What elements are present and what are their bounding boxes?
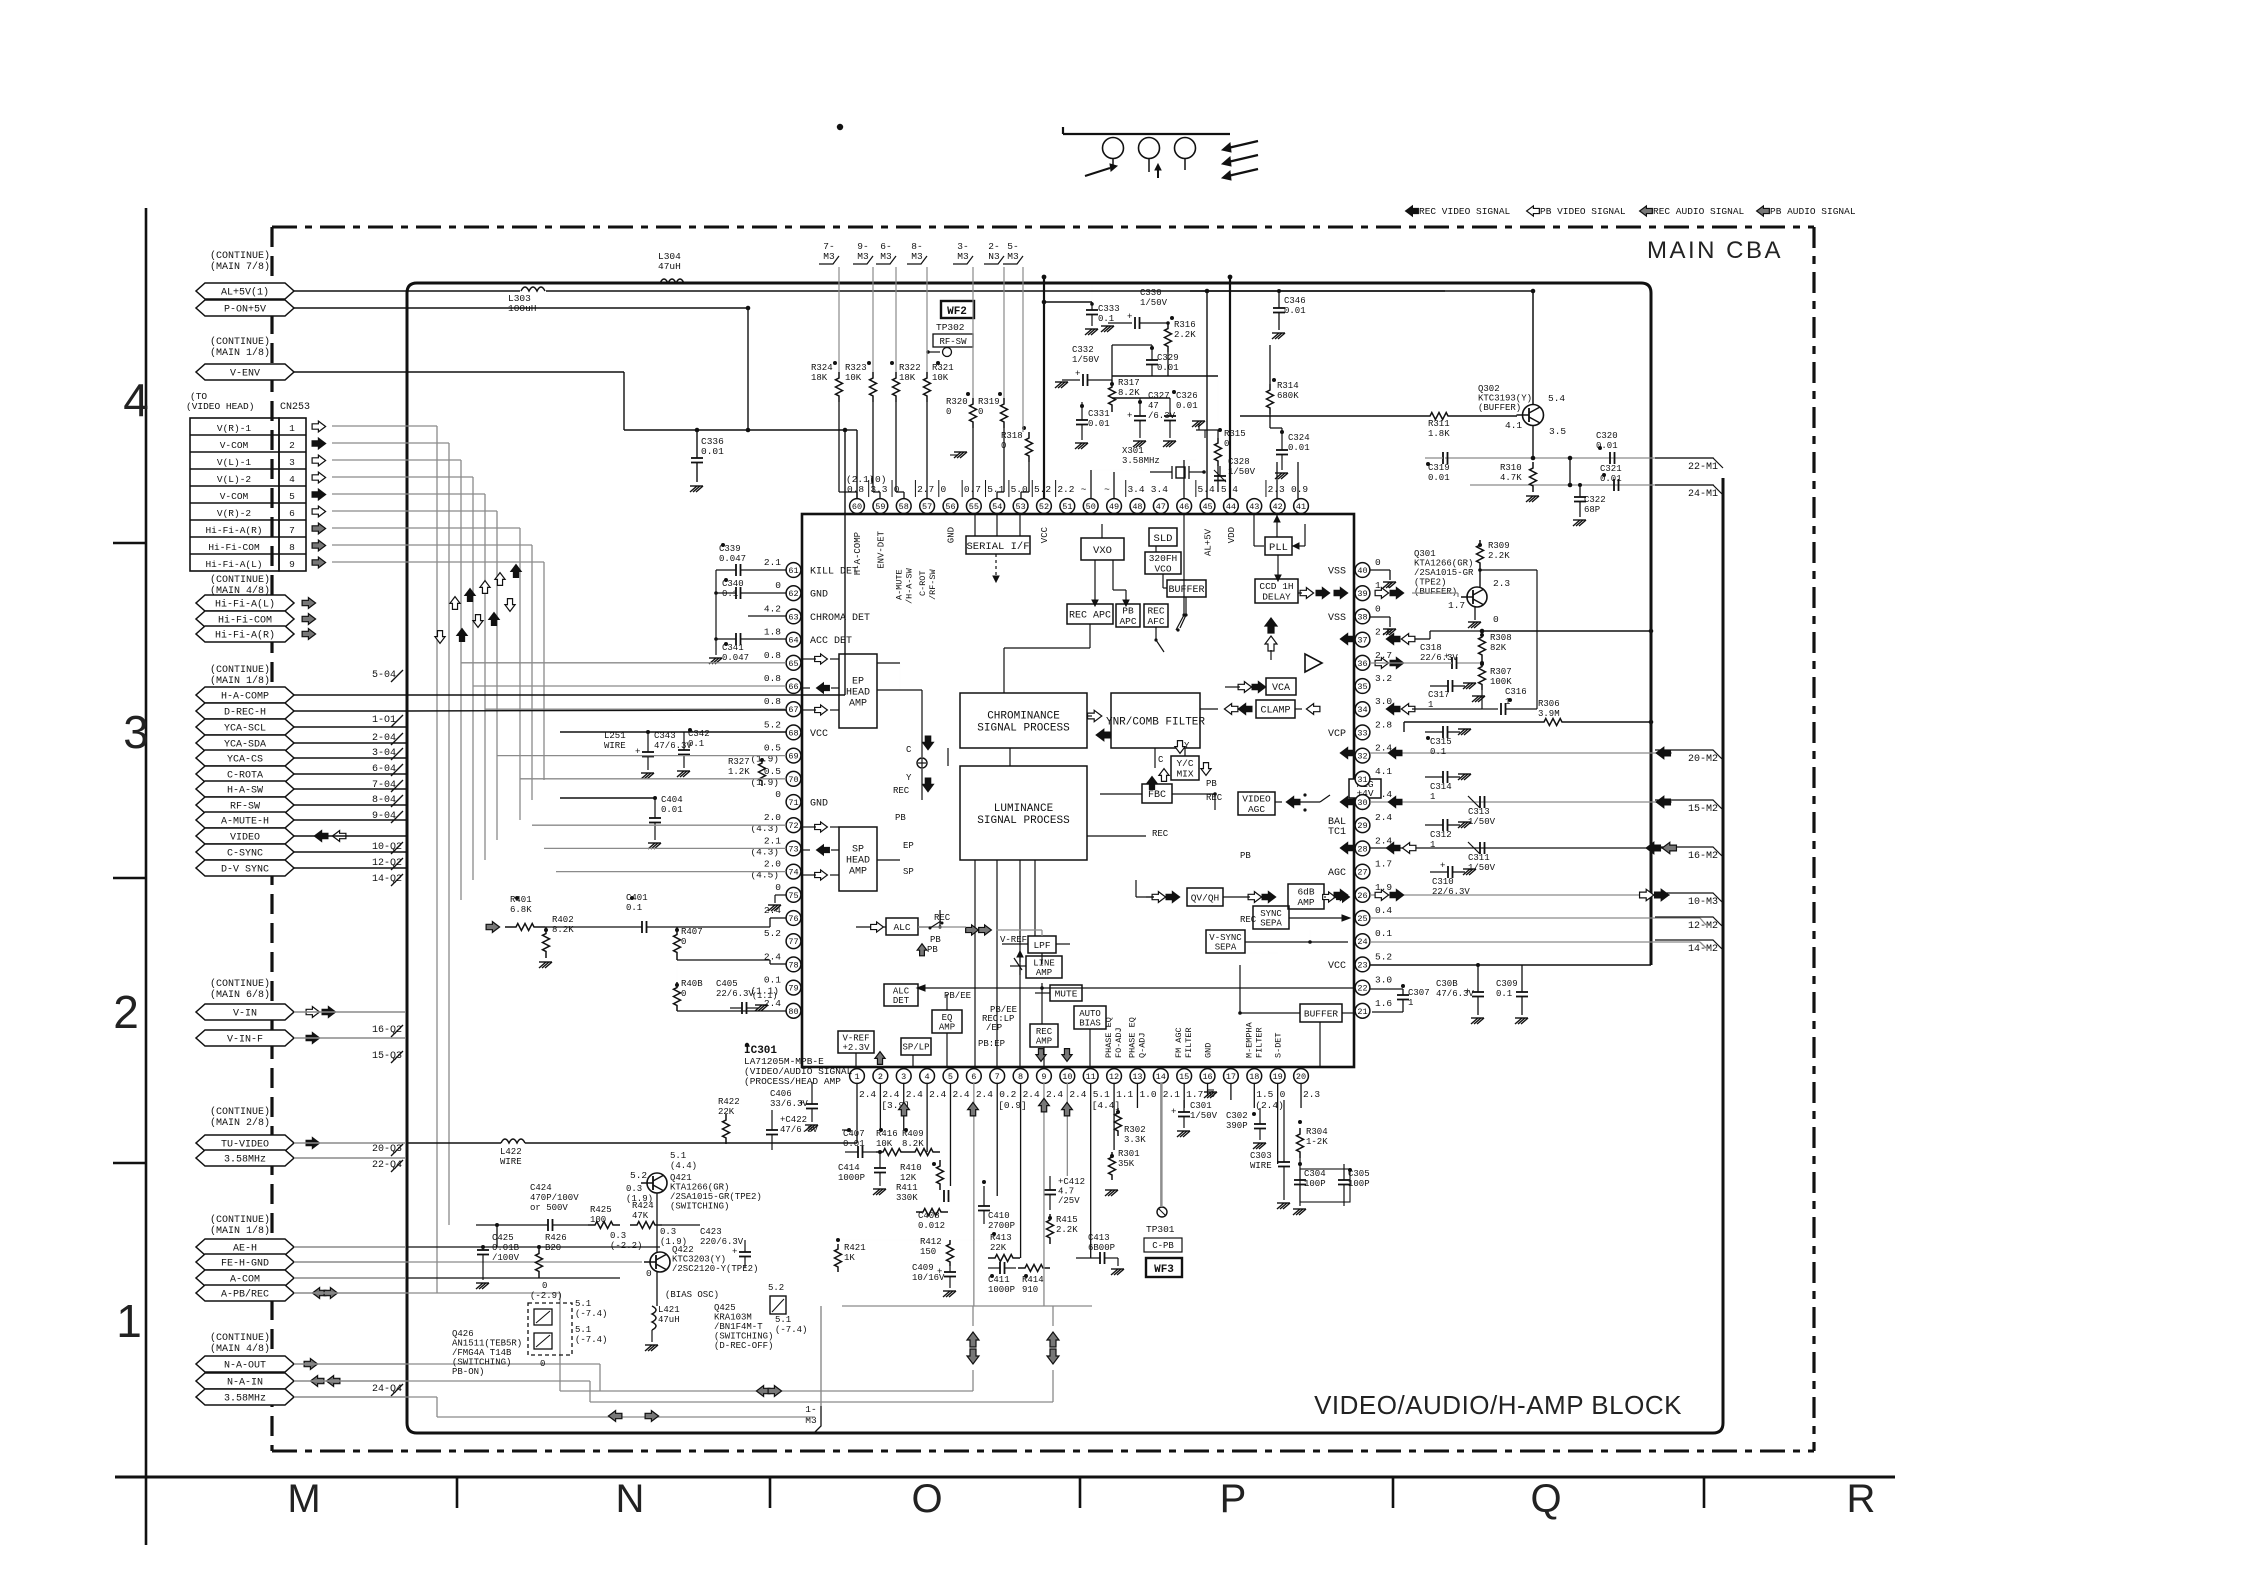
capacitor C313 (1468, 796, 1496, 827)
left ruler tick y543 (113, 542, 146, 545)
inductor L303 (508, 293, 537, 314)
pin 15 (IC301 bottom) (1177, 1069, 1204, 1100)
svg-text:78: 78 (788, 960, 798, 970)
svg-text:V-IN: V-IN (233, 1009, 257, 1020)
svg-text:19: 19 (1273, 1072, 1283, 1082)
net tag 7-M3 (top) (819, 241, 839, 264)
wire head bundle v6 (332, 511, 497, 840)
svg-text:2.2K: 2.2K (1056, 1225, 1078, 1235)
resistor R315 (1192, 421, 1246, 466)
svg-text:D-V SYNC: D-V SYNC (221, 865, 269, 876)
pin 40 (IC301 right) (1355, 557, 1381, 577)
wire to pin 67 (485, 708, 786, 710)
svg-text:1: 1 (1430, 840, 1435, 850)
svg-text:2.2K: 2.2K (1174, 330, 1196, 340)
svg-text:12-M2: 12-M2 (1688, 921, 1718, 932)
pin 27 (IC301 right) (1355, 859, 1392, 879)
svg-text:C307: C307 (1408, 988, 1430, 998)
svg-text:C320: C320 (1596, 431, 1618, 441)
wire pin43 stub (1184, 460, 1196, 499)
svg-text:12K: 12K (900, 1173, 917, 1183)
svg-text:0: 0 (978, 407, 983, 417)
pin name BAL TC1 (pin 29) (1328, 817, 1346, 838)
wire pin34 to C316 (1412, 708, 1482, 710)
wire into CHROMINANCE (1096, 729, 1111, 740)
wire hex row y758 (294, 757, 406, 759)
arrow Hi-Fi-A(L) (302, 598, 316, 609)
svg-text:0.01: 0.01 (1428, 473, 1450, 483)
svg-text:ENV-DET: ENV-DET (876, 530, 886, 568)
wire QV/QH input (1136, 880, 1154, 897)
pin 30 redraw (1355, 795, 1370, 810)
wire 22-M1 row (1445, 457, 1714, 459)
svg-text:C314: C314 (1430, 782, 1452, 792)
pin 8 (IC301 bottom) (1013, 1069, 1040, 1100)
svg-text:3.0: 3.0 (1375, 975, 1392, 986)
resistor R320 (946, 392, 977, 428)
svg-text:REC: REC (893, 786, 910, 796)
svg-text:0: 0 (1280, 1089, 1286, 1100)
wire head bundle v4 (332, 477, 473, 880)
svg-text:YCA-CS: YCA-CS (227, 755, 263, 766)
net tag 3.58MHz (196, 1389, 294, 1405)
svg-text:PB: PB (1206, 779, 1217, 789)
svg-text:Q301: Q301 (1414, 549, 1436, 559)
net tag 5-M3 (top) (1003, 241, 1023, 264)
test point WF2 (941, 301, 974, 318)
svg-text:V(R)-1: V(R)-1 (217, 423, 252, 434)
resistor R301 (1105, 1149, 1140, 1196)
svg-text:ALC: ALC (893, 922, 910, 933)
capacitor C326 (1163, 390, 1198, 447)
svg-text:BIAS: BIAS (1079, 1019, 1101, 1029)
svg-text:55: 55 (969, 502, 979, 512)
pin name PHASE EQ (pin 12) (1104, 1017, 1124, 1058)
svg-text:PHASE EQ: PHASE EQ (1127, 1017, 1137, 1058)
svg-text:5.2: 5.2 (764, 928, 781, 939)
arrow CN253 pin 7 (312, 523, 326, 534)
REC APC box (1067, 604, 1113, 624)
arrow 15-M2 (1656, 796, 1670, 807)
arrow pin28 b (1402, 843, 1416, 854)
wire SP amp out (877, 859, 900, 861)
capacitor C425 (476, 1233, 520, 1289)
svg-text:R324: R324 (811, 363, 833, 373)
pin name CHROMA DET (pin 63) (810, 613, 870, 624)
svg-text:REC AUDIO SIGNAL: REC AUDIO SIGNAL (1653, 206, 1745, 217)
net tag C-ROTA (196, 766, 294, 782)
svg-text:N3: N3 (988, 251, 1000, 262)
test point TP301 (1146, 1207, 1175, 1235)
svg-text:C408: C408 (918, 1211, 940, 1221)
svg-text:Hi-Fi-COM: Hi-Fi-COM (218, 615, 272, 627)
net tag 8-M3 (top) (907, 241, 927, 264)
svg-text:7: 7 (995, 1072, 1000, 1082)
svg-text:0: 0 (1375, 557, 1381, 568)
resistor R309 (1477, 540, 1511, 568)
svg-text:3.3K: 3.3K (1124, 1135, 1146, 1145)
svg-text:EQ: EQ (942, 1013, 953, 1023)
svg-text:VCA: VCA (1272, 683, 1290, 694)
svg-text:Q: Q (1530, 1477, 1561, 1521)
svg-text:R411: R411 (896, 1183, 918, 1193)
svg-text:2.1: 2.1 (764, 835, 781, 846)
resistor R413 (988, 1232, 1020, 1262)
label PB:EP (978, 1039, 1005, 1049)
arrow A-PB/REC a (312, 1288, 326, 1299)
svg-text:3.4: 3.4 (1151, 484, 1168, 495)
svg-text:M3: M3 (1007, 251, 1019, 262)
svg-text:5.1: 5.1 (987, 484, 1004, 495)
svg-text:(D-REC-OFF): (D-REC-OFF) (714, 1341, 773, 1351)
svg-text:80: 80 (788, 1007, 798, 1017)
svg-text:KTC3203(Y): KTC3203(Y) (672, 1255, 726, 1265)
wire pin50/49 to X301 (1091, 470, 1150, 499)
svg-text:0.01: 0.01 (843, 1139, 865, 1149)
wire FBC link (1100, 792, 1217, 810)
pin 5 (IC301 bottom) (943, 1069, 970, 1100)
capacitor C303 (1250, 1100, 1290, 1209)
wire to pin 65 (461, 662, 786, 664)
svg-text:(MAIN 4/8): (MAIN 4/8) (210, 1343, 270, 1355)
net tag A-MUTE-H (196, 812, 294, 828)
svg-text:5-04: 5-04 (372, 670, 396, 681)
label PB (alc) (930, 935, 941, 945)
wire hex row y868 (294, 867, 406, 869)
arrow CN253 pin 6 (312, 506, 326, 517)
capacitor C341 (716, 633, 786, 663)
svg-text:320FH: 320FH (1149, 553, 1178, 564)
svg-text:P: P (1220, 1477, 1247, 1521)
svg-text:680K: 680K (1277, 391, 1299, 401)
svg-text:72: 72 (788, 821, 798, 831)
svg-text:0.8: 0.8 (764, 673, 781, 684)
svg-text:X301: X301 (1122, 446, 1144, 456)
wire AFC switch to pin46 (1154, 514, 1185, 652)
svg-text:1: 1 (1430, 792, 1435, 802)
pin 65 (IC301 left) (764, 650, 801, 670)
svg-text:7: 7 (289, 525, 295, 536)
VXO box (1081, 538, 1124, 560)
svg-text:Q425: Q425 (714, 1303, 736, 1313)
svg-text:2.8: 2.8 (1375, 719, 1392, 730)
svg-text:V-COM: V-COM (220, 440, 249, 451)
resistor R421 (835, 1238, 866, 1272)
svg-text:4.1: 4.1 (1505, 420, 1522, 431)
svg-text:63: 63 (788, 612, 798, 622)
svg-text:1.5: 1.5 (1256, 1089, 1273, 1100)
resistor R304 (1297, 1120, 1329, 1158)
pin 44 (IC301 top) (1221, 484, 1238, 513)
net tag C-SYNC (196, 844, 294, 860)
signal legend (1406, 206, 1856, 217)
bottom ruler tick x1393 (1392, 1477, 1395, 1508)
pin 37 (IC301 right) (1355, 627, 1392, 647)
svg-text:C310: C310 (1432, 877, 1454, 887)
svg-text:68: 68 (788, 728, 798, 738)
svg-text:2.2K: 2.2K (1488, 551, 1510, 561)
svg-text:41: 41 (1296, 502, 1306, 512)
row label 2 (113, 986, 139, 1038)
wire V-REF LPF (1002, 943, 1070, 945)
wire AL+5V rail (294, 287, 1533, 291)
svg-text:4: 4 (289, 474, 295, 485)
svg-text:C328: C328 (1228, 457, 1250, 467)
svg-text:GND: GND (946, 527, 956, 543)
svg-text:HEAD: HEAD (846, 856, 870, 867)
pin name VSS (pin 38) (1328, 613, 1346, 624)
6dB AMP box (1288, 884, 1324, 909)
svg-text:2.3: 2.3 (1493, 578, 1510, 589)
svg-text:REC: REC (1206, 793, 1223, 803)
svg-text:1/50V: 1/50V (1140, 298, 1168, 308)
arrow CN253 pin 9 (312, 557, 326, 568)
svg-text:0.01: 0.01 (1088, 419, 1110, 429)
svg-text:(1.1): (1.1) (752, 991, 778, 1001)
ground pin16 (1204, 1090, 1217, 1098)
label PB (6db) (1240, 851, 1251, 861)
net tag 12-Q2 (372, 858, 403, 870)
continue label MAIN 4/8 (210, 1332, 270, 1355)
arrow pin28 a (1386, 843, 1400, 854)
wire hex row y1143 (294, 1142, 406, 1144)
svg-text:[0.9]: [0.9] (998, 1100, 1027, 1111)
svg-text:(-2.2): (-2.2) (610, 1241, 642, 1251)
op-amp IC301 body (802, 514, 1354, 1067)
svg-text:1.6: 1.6 (1375, 998, 1392, 1009)
svg-text:47uH: 47uH (658, 1315, 680, 1325)
net tag Hi-Fi-A(L) (196, 595, 294, 611)
svg-text:66: 66 (788, 682, 798, 692)
svg-text:S-DET: S-DET (1274, 1032, 1284, 1058)
svg-text:0.1: 0.1 (764, 975, 781, 986)
net tag 15-M2 (1655, 800, 1723, 815)
column label O (911, 1477, 942, 1521)
flow arrow CCD up (1265, 618, 1277, 660)
wire pin28 to 16-M2 (1370, 847, 1670, 849)
net tag A-PB/REC (196, 1285, 294, 1301)
capacitor C330 (1101, 288, 1170, 332)
svg-text:YCA-SDA: YCA-SDA (224, 740, 266, 751)
svg-text:R301: R301 (1118, 1149, 1140, 1159)
svg-text:(VIDEO HEAD): (VIDEO HEAD) (186, 401, 254, 412)
svg-text:(CONTINUE): (CONTINUE) (210, 664, 270, 676)
svg-text:1: 1 (854, 1072, 859, 1082)
transistor Q421 (626, 1151, 762, 1212)
svg-text:34: 34 (1357, 705, 1367, 715)
svg-text:45: 45 (1202, 502, 1212, 512)
label Y (sum) (906, 773, 912, 783)
svg-text:C404: C404 (661, 795, 683, 805)
net tag 3-04 (372, 748, 403, 760)
label C (sum) (906, 745, 912, 755)
svg-text:0: 0 (775, 789, 781, 800)
pin name AL+5V (pin 45) (1204, 528, 1214, 556)
svg-text:A-COM: A-COM (230, 1275, 260, 1286)
test point WF3 (1146, 1258, 1182, 1277)
svg-text:R412: R412 (920, 1237, 942, 1247)
svg-text:D-REC-H: D-REC-H (224, 708, 266, 719)
wire bottom horizontals (838, 1130, 1092, 1306)
arrow EP in 66 (802, 683, 839, 693)
svg-text:V(L)-1: V(L)-1 (217, 457, 252, 468)
svg-text:R407: R407 (681, 927, 703, 937)
svg-text:+: + (1127, 411, 1132, 421)
svg-text:EP: EP (903, 841, 914, 851)
svg-text:H-A-COMP: H-A-COMP (221, 692, 269, 703)
svg-text:O: O (911, 1477, 942, 1521)
capacitor C409 (912, 1263, 956, 1297)
svg-text:10: 10 (1062, 1072, 1072, 1082)
svg-text:C318: C318 (1420, 643, 1442, 653)
svg-text:31: 31 (1357, 775, 1367, 785)
svg-text:M3: M3 (911, 251, 923, 262)
svg-text:3.0: 3.0 (1375, 696, 1392, 707)
svg-text:(BIAS OSC): (BIAS OSC) (665, 1290, 719, 1300)
resistor R410 (900, 1160, 944, 1190)
label PB (head sw) (895, 813, 906, 823)
svg-text:6.8K: 6.8K (510, 905, 532, 915)
capacitor C407 (843, 1128, 876, 1158)
svg-text:/BN1F4M-T: /BN1F4M-T (714, 1322, 763, 1332)
svg-text:(SWITCHING): (SWITCHING) (452, 1358, 511, 1368)
svg-text:SP/LP: SP/LP (902, 1043, 929, 1053)
net tag N-A-OUT (196, 1356, 294, 1372)
svg-text:910: 910 (1022, 1285, 1038, 1295)
net tag 22-M1 (1655, 458, 1723, 473)
wire P-ON+5V (294, 306, 750, 433)
wire Q421-Q422 link (656, 1193, 658, 1306)
arrow N-A-OUT (304, 1359, 318, 1370)
svg-text:REC: REC (1240, 915, 1257, 925)
pin 41 (IC301 top) (1291, 484, 1308, 513)
YNR/COMB FILTER box (1106, 693, 1205, 748)
pin 9 (IC301 bottom) (1037, 1069, 1064, 1100)
wire hex row y820 (294, 819, 406, 821)
wire Y/C MIX arrows (1147, 741, 1211, 790)
svg-text:R402: R402 (552, 915, 574, 925)
pin 56 (IC301 top) (940, 484, 957, 513)
net tag 24-M1 (1655, 485, 1723, 500)
svg-text:PB VIDEO SIGNAL: PB VIDEO SIGNAL (1540, 206, 1626, 217)
svg-text:1.7: 1.7 (1186, 1089, 1203, 1100)
svg-text:R307: R307 (1490, 667, 1512, 677)
svg-text:AGC: AGC (1248, 804, 1265, 815)
capacitor C333 (1042, 300, 1120, 335)
svg-text:(-7.4): (-7.4) (575, 1309, 607, 1319)
svg-text:47: 47 (1148, 401, 1159, 411)
svg-text:8.2K: 8.2K (902, 1139, 924, 1149)
svg-text:(MAIN 2/8): (MAIN 2/8) (210, 1117, 270, 1129)
svg-text:C316: C316 (1505, 687, 1527, 697)
svg-text:/RF-SW: /RF-SW (928, 568, 938, 600)
svg-text:1/50V: 1/50V (1228, 467, 1256, 477)
wire pin30 to 15-M2 (1370, 801, 1672, 803)
svg-text:0.01: 0.01 (701, 446, 724, 457)
svg-text:1000P: 1000P (838, 1173, 865, 1183)
svg-text:2.7: 2.7 (917, 484, 934, 495)
wire R407 to pin78 (677, 960, 786, 964)
wire SERIAL I/F pins (975, 514, 1020, 536)
pin 47 (IC301 top) (1151, 484, 1168, 513)
svg-text:16-M2: 16-M2 (1688, 851, 1718, 862)
capacitor C301 (1171, 1100, 1218, 1137)
svg-text:C346: C346 (1284, 296, 1306, 306)
arrow CN253 pin 8 (312, 540, 326, 551)
capacitor C343 (635, 730, 692, 779)
QV/QH box (1187, 888, 1223, 906)
svg-text:5: 5 (289, 491, 295, 502)
arrow CN253 pin 4 (312, 472, 326, 483)
pin 54 (IC301 top) (987, 484, 1004, 513)
arrow pin36 b (1390, 658, 1404, 669)
svg-text:33: 33 (1357, 728, 1367, 738)
wire PLL pins (1254, 514, 1280, 546)
BUFFER box (bottom) (1300, 1004, 1342, 1022)
svg-text:C-PB: C-PB (1152, 1241, 1174, 1251)
capacitor C412 (1044, 1176, 1085, 1210)
svg-text:67: 67 (788, 705, 798, 715)
wire hex row y711 (294, 710, 406, 712)
svg-text:3: 3 (901, 1072, 906, 1082)
ground pin38 (1370, 617, 1396, 635)
svg-text:VDD: VDD (1227, 527, 1237, 543)
svg-text:R327: R327 (728, 757, 750, 767)
svg-text:C311: C311 (1468, 853, 1490, 863)
pin 79 (IC301 left) (750, 975, 800, 997)
arrow 6dB to pin26 (1323, 892, 1350, 902)
transistor Q301 (1414, 549, 1510, 625)
wire head bundle v5 (332, 494, 485, 860)
svg-text:3.4: 3.4 (1127, 484, 1144, 495)
flow arrow pin9 (1039, 1098, 1050, 1112)
svg-text:R308: R308 (1490, 633, 1512, 643)
resistor R425 (588, 1205, 620, 1229)
net tag FE-H-GND (196, 1254, 294, 1270)
arrow inside pin32 (1340, 748, 1354, 759)
capacitor C405 (716, 979, 778, 1014)
svg-text:220/6.3V: 220/6.3V (700, 1237, 744, 1247)
wire LINE AMP in (1010, 958, 1026, 970)
capacitor C423 (700, 1227, 751, 1268)
svg-text:A-MUTE-H: A-MUTE-H (221, 817, 269, 828)
svg-text:/EP: /EP (986, 1023, 1002, 1033)
arrow Hi-Fi-COM (302, 614, 316, 625)
svg-text:0.01: 0.01 (1176, 401, 1198, 411)
svg-text:FM AGC: FM AGC (1174, 1027, 1184, 1058)
LUMINANCE SIGNAL PROCESS box (960, 766, 1087, 860)
svg-text:V(L)-2: V(L)-2 (217, 474, 252, 485)
left ruler line (145, 208, 148, 1545)
svg-text:PLL: PLL (1269, 542, 1288, 554)
svg-text:C425: C425 (492, 1233, 514, 1243)
arrow pin39 b (1390, 588, 1404, 599)
svg-text:TU-VIDEO: TU-VIDEO (221, 1140, 269, 1151)
svg-text:39: 39 (1357, 589, 1367, 599)
svg-text:CHROMA DET: CHROMA DET (810, 613, 870, 624)
svg-text:2.4: 2.4 (1023, 1089, 1040, 1100)
capacitor C336 (624, 428, 845, 492)
svg-text:2.4: 2.4 (859, 1089, 876, 1100)
resistor R327 (728, 757, 766, 786)
title VIDEO/AUDIO/H-AMP BLOCK (1314, 1390, 1682, 1420)
svg-text:2.4: 2.4 (906, 1089, 923, 1100)
flow arrow pair bottom2 (1047, 1332, 1059, 1364)
svg-text:Hi-Fi-A(L): Hi-Fi-A(L) (215, 599, 275, 611)
pin name VCC (pin 68) (810, 729, 828, 740)
svg-text:2.4: 2.4 (1046, 1089, 1063, 1100)
wire hex row y743 (294, 742, 406, 744)
